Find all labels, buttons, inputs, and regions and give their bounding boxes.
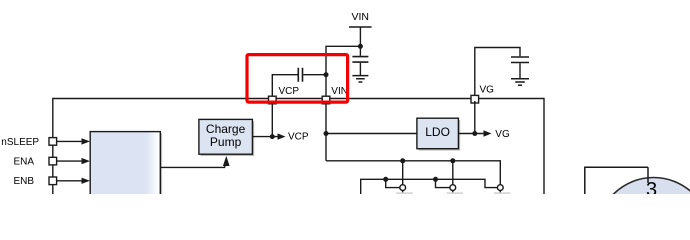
- node rail2 gate A: [383, 177, 388, 182]
- node VIN junction: [358, 44, 363, 49]
- node LDO input junction: [324, 131, 329, 136]
- svg-text:ENB: ENB: [13, 176, 34, 187]
- IC top edge wire: [53, 98, 544, 100]
- node VIN lead / cap junction: [324, 72, 329, 77]
- wire gate rail 2: [361, 179, 498, 194]
- pin VIN: [322, 96, 330, 104]
- IC right edge wire: [543, 98, 545, 194]
- node VCP junction: [270, 134, 275, 139]
- svg-text:LDO: LDO: [425, 125, 450, 139]
- wire LDO output: [458, 133, 484, 135]
- FET gray stub A: [396, 192, 413, 194]
- svg-text:ENA: ENA: [13, 156, 34, 167]
- ground at VG cap: [511, 79, 529, 85]
- capacitor C-VG bottom lead: [519, 63, 521, 78]
- node VG junction: [472, 131, 477, 136]
- svg-text:Charge: Charge: [206, 122, 246, 136]
- pin ENA: [49, 157, 57, 165]
- svg-text:VIN: VIN: [331, 86, 348, 97]
- motor M1 circle: [597, 178, 690, 240]
- capacitor C-VCP (in red box) left wire: [272, 75, 297, 98]
- LDO box U3: [417, 118, 459, 149]
- svg-text:Pump: Pump: [210, 135, 242, 149]
- gate bubble A: [400, 185, 406, 191]
- wire VG pin lead down: [474, 101, 476, 134]
- svg-text:VCP: VCP: [288, 132, 309, 143]
- wire charge pump output: [252, 136, 278, 138]
- capacitor C-VCP plates: [298, 68, 302, 82]
- wire junction to VIN pin lead: [326, 46, 360, 98]
- wire LDO input: [326, 133, 417, 135]
- wire logic block to charge pump: [160, 162, 226, 167]
- wire VG pin to top-right cap: [475, 48, 520, 99]
- annotation red box: [247, 55, 348, 103]
- arrowhead VCP out: [278, 133, 286, 139]
- VIN supply bar: [349, 26, 372, 28]
- wire gate rail 1 (VIN to HS gates): [326, 161, 500, 194]
- wire gate B vertical: [452, 161, 454, 194]
- wire ENA to logic block: [57, 160, 83, 162]
- svg-text:VG: VG: [480, 85, 495, 96]
- charge pump box U2: [199, 119, 253, 154]
- capacitor C-VCP right wire: [303, 74, 326, 76]
- wire gate A vertical: [402, 161, 404, 194]
- svg-text:VIN: VIN: [351, 11, 369, 23]
- pin ENB: [49, 177, 57, 185]
- FET gray stub B: [447, 192, 464, 194]
- capacitor C-VIN plates: [352, 57, 368, 63]
- wire VCP pin lead down: [271, 101, 273, 137]
- wire ENB to logic block: [57, 180, 83, 182]
- ground at VIN cap: [352, 76, 368, 82]
- logic block shadow: [92, 133, 162, 195]
- wire VIN pin lead down: [325, 101, 327, 161]
- node rail1 gate B: [450, 158, 455, 163]
- LDO box shadow: [419, 120, 461, 151]
- sense box near motor: [585, 167, 648, 194]
- svg-text:nSLEEP: nSLEEP: [1, 137, 39, 148]
- wire rail2 to gate B bubble: [436, 179, 450, 187]
- arrowhead into charge pump: [223, 156, 230, 166]
- logic block U-core: [90, 132, 160, 196]
- node rail2 gate B: [433, 177, 438, 182]
- capacitor C-VIN top lead: [359, 46, 361, 56]
- pin VG: [471, 95, 479, 103]
- wire nSLEEP to logic block: [57, 140, 83, 142]
- pin VCP: [269, 96, 277, 104]
- FET gray stub C: [494, 192, 511, 194]
- wire rail2 to gate A bubble: [386, 179, 400, 187]
- capacitor C-VG plates: [511, 57, 529, 63]
- arrowhead VG out: [484, 130, 492, 136]
- charge pump box shadow: [201, 121, 255, 156]
- IC left edge wire: [52, 98, 54, 194]
- svg-text:3: 3: [646, 179, 657, 194]
- wire motor phase into circle: [647, 167, 649, 183]
- pin nSLEEP: [49, 138, 57, 146]
- svg-text:VG: VG: [495, 129, 510, 140]
- capacitor C-VIN bottom lead: [359, 63, 361, 75]
- node rail1 gate A: [400, 158, 405, 163]
- wire VIN bar to junction: [359, 27, 361, 46]
- svg-text:VCP: VCP: [279, 86, 300, 97]
- gate bubble B: [450, 185, 456, 191]
- gate bubble C: [497, 185, 503, 191]
